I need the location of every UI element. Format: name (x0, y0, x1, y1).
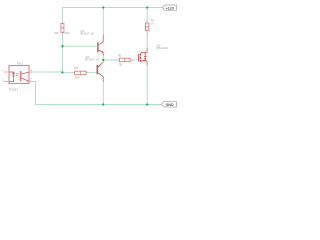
svg-text:1: 1 (2, 69, 4, 72)
channel dashes (139, 53, 141, 62)
opto pin 4 collector lead (29, 71, 32, 73)
supply flag +12V (162, 5, 176, 10)
svg-text:R2: R2 (74, 66, 78, 70)
wire R1 to Q3 gate (133, 59, 138, 61)
svg-text:33: 33 (119, 62, 123, 66)
wire opto emitter down (32, 82, 36, 105)
svg-text:10k: 10k (65, 31, 70, 35)
source link with arrow (141, 60, 147, 62)
opto LED arrows (16, 73, 18, 76)
net GND bottom rail wire (35, 104, 161, 106)
svg-text:IRF2442: IRF2442 (156, 46, 168, 50)
wire top rail to R5 (61, 8, 63, 21)
wire node N to R1 (103, 59, 117, 61)
svg-text:200: 200 (75, 76, 80, 80)
wire R2 to Q2 base (88, 71, 97, 73)
svg-text:R1: R1 (118, 53, 122, 57)
drain link (141, 52, 147, 53)
wire R5 to node A (61, 34, 63, 46)
svg-text:BC817-16: BC817-16 (80, 32, 94, 36)
drain pin lead (146, 48, 148, 53)
transistor Q3 IRF2442 n-mosfet (139, 44, 169, 66)
wire R4 to Q3 drain (146, 36, 148, 48)
junction dot gnd/Q2 collector (102, 103, 104, 105)
resistor R1 (117, 53, 133, 66)
wire Q2 collector to gnd rail (102, 82, 104, 105)
svg-text:2: 2 (2, 79, 4, 82)
resistor R2 (73, 66, 88, 80)
svg-text:+12V: +12V (166, 6, 175, 10)
wire Q3 source to gnd rail (146, 66, 148, 105)
opto phototransistor (20, 71, 22, 81)
svg-text:PC817: PC817 (9, 88, 19, 92)
junction dot rail/Q1 collector (102, 6, 104, 8)
wire node A to node B (61, 46, 63, 72)
node B junction dot (61, 71, 63, 73)
source pin lead (146, 61, 148, 66)
supply flag GND (161, 102, 176, 107)
node N junction dot (102, 59, 104, 61)
transistor Q2 BC807-16 pnp (85, 55, 103, 82)
resistor R4 (146, 19, 155, 36)
junction dot gnd/Q3 source (146, 103, 148, 105)
opto pin 2 cathode lead (4, 81, 9, 83)
body diode column (144, 52, 146, 61)
wire opto collector to node B (32, 71, 63, 73)
opto pin 3 emitter lead (29, 81, 32, 83)
svg-text:GND: GND (166, 103, 174, 107)
optocoupler OK1 PC817 (2, 61, 33, 91)
resistor R5 (55, 21, 70, 35)
opto box (9, 66, 29, 84)
svg-text:BC807-16: BC807-16 (85, 58, 99, 62)
gate bar (138, 54, 140, 61)
wire node N to Q2 emitter (102, 60, 104, 62)
wire rail to R4 (146, 8, 148, 22)
opto LED (9, 71, 14, 74)
wire node A to Q1 base (62, 45, 97, 47)
wire node B to R2 (62, 71, 73, 73)
transistor Q1 BC817-16 npn (80, 29, 103, 56)
net +12V top rail wire (62, 7, 162, 9)
body diode (144, 56, 147, 58)
opto pin 1 anode lead (4, 71, 9, 73)
svg-text:R5: R5 (55, 31, 59, 35)
svg-text:OK1: OK1 (17, 61, 23, 65)
node A junction dot (61, 45, 63, 47)
wire Q1 emitter to node N (102, 56, 104, 61)
junction dot rail/R4 (146, 6, 148, 8)
wire rail to Q1 collector (102, 8, 104, 35)
